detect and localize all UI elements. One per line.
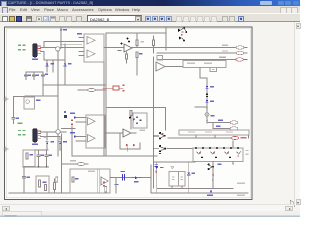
wire D21 drop vertical [188, 162, 190, 193]
BB divider [97, 169, 99, 193]
R24 label (blue) [216, 125, 221, 126]
D11 black marks [206, 94, 208, 95]
resistor R41 (vertical) [39, 180, 41, 187]
wire BB out y177 [110, 176, 151, 178]
wire pin row into U1 [44, 42, 84, 48]
lamp/varistor circle component [56, 47, 60, 51]
connector J1 refdes label [32, 58, 38, 60]
capacitor C1 label [28, 75, 31, 76]
resistor R43 marks [56, 177, 58, 182]
diode D5 (blue) [46, 63, 49, 65]
wire drop x165.5 to LB2 [165, 107, 167, 130]
wire D20 drop [156, 162, 158, 193]
capacitor C3 label [45, 73, 48, 74]
snubber box U6 [133, 113, 147, 128]
wire sec rail upper [157, 187, 233, 189]
wire feed rail y107 [106, 106, 166, 108]
R22 right stub [244, 59, 247, 61]
diode D21 (blue) [187, 172, 190, 174]
op-amp U1A triangle [87, 37, 95, 45]
wire D6 vertical [64, 44, 66, 85]
LED D1 (blue) [60, 30, 63, 32]
sheet inner margin line [6, 29, 250, 198]
junction on rail [136, 32, 138, 34]
wire left drop [23, 167, 25, 193]
transistor Q6 cluster [159, 132, 161, 134]
wire cap rail bottom [23, 166, 49, 168]
wire stub y128.5 [62, 128, 76, 130]
pwm ctrl box U4 [157, 56, 163, 61]
lamp/varistor circle component lower [56, 130, 60, 134]
D26 label [63, 141, 67, 143]
wire U7 feed from R25 [232, 141, 234, 164]
D23 label [207, 195, 213, 196]
R23 label (blue) [218, 120, 223, 121]
resistor R13 (oval) [88, 88, 96, 91]
R40 label [29, 154, 32, 155]
resistor R23 (oval) [230, 121, 238, 124]
R11 label [141, 41, 144, 42]
wire diode string vertical [206, 78, 208, 123]
wire vertical x58.5 [57, 51, 59, 156]
transistor Q4 cluster dots [179, 36, 181, 39]
zener DZ1 (dark) [64, 111, 66, 113]
wire long vertical x104 [103, 62, 105, 156]
op-amp U3B triangle [88, 135, 96, 143]
wire rail y59.5 [157, 59, 236, 61]
comparator A1 triangle [124, 44, 132, 52]
capacitor C14 (blue) at x156 [155, 165, 158, 167]
wire long vertical x106 [105, 33, 107, 156]
resistor R22 (oval) [236, 58, 244, 61]
U7 top edge transistor dots [195, 147, 197, 149]
wire R12 lower stub [136, 58, 138, 76]
filter box FL1 [23, 150, 35, 167]
resistor R10 (vertical) [126, 54, 128, 59]
op-amp IC U1 box [84, 34, 104, 62]
wire vertical through D1 [60, 28, 62, 49]
T1 winding marks left [172, 176, 174, 177]
U1 pin name text row [60, 44, 82, 45]
BB top label [88, 171, 95, 172]
Q3 red mark [182, 31, 184, 32]
diode D23 on rail (blue) [210, 190, 213, 192]
wire second feed [213, 123, 230, 129]
relay K1 coil circle [26, 100, 30, 104]
capacitor C12 [23, 177, 26, 178]
D28 label [134, 181, 139, 182]
C12 label [26, 176, 29, 177]
wire R14 stubs [153, 36, 155, 53]
junction node C [206, 120, 208, 122]
R25 value text (red) [241, 137, 247, 138]
connector J1 pins [38, 46, 41, 53]
wire U1 out to Q1 stage [104, 47, 124, 49]
D10 label [210, 86, 214, 88]
D20 label [160, 167, 164, 168]
A1 minus input mark [118, 50, 121, 52]
resistor R40 (vertical) [26, 153, 28, 159]
wire vertical x59.5 [61, 134, 63, 193]
diode D22 (red) [212, 174, 215, 176]
diode D5 label [50, 63, 54, 64]
wire U5 out into LB1 [165, 66, 183, 68]
wire capacitor rail top [26, 71, 43, 73]
op-amp U1B triangle [87, 50, 95, 58]
capacitor C13 (blue) [123, 175, 125, 181]
wire long rail y85 [43, 84, 106, 86]
wire lower pin elbow [41, 52, 65, 61]
resistor R46 inside BB [105, 187, 107, 193]
junction node B [206, 107, 208, 109]
D12 label [210, 100, 214, 102]
D25 label [50, 141, 54, 143]
wire J2 branch to D25 [46, 132, 48, 140]
resistor R20 (oval) [236, 46, 244, 49]
Q4 red mark [181, 34, 183, 35]
wire J2 upper pin [41, 131, 66, 133]
diode D20 (blue) [155, 167, 158, 169]
net label DC_P (green) [18, 130, 21, 131]
wire sec rail lower [151, 192, 248, 194]
resistor R11 (vertical) [136, 40, 138, 46]
wire J2 to D26 [41, 137, 60, 140]
border junction tick lower [4, 147, 8, 151]
capacitor C2 [33, 72, 36, 79]
R21 value text [222, 50, 228, 51]
T1 winding marks right [180, 176, 182, 177]
T1 bottom stubs [172, 186, 182, 189]
diode D6 label [68, 63, 72, 64]
diode D28 (blue) with red leads [135, 176, 138, 179]
diode D27 (red) inside BB [103, 182, 105, 183]
resistor R14 (vertical) [153, 40, 155, 46]
driver array box U7 [193, 148, 243, 162]
diode D26 (blue) [59, 142, 62, 145]
transistor Q14 cluster [208, 163, 210, 165]
ground rail bottom [9, 192, 110, 194]
crystal Y1 (red) [113, 86, 119, 90]
transistor dot Q1b [127, 38, 129, 40]
C11 label [48, 155, 51, 156]
wire U3 out to A2 [105, 132, 123, 134]
op-amp U3A triangle [88, 118, 96, 126]
title block text lower [237, 195, 245, 196]
wire down from A2 [119, 133, 121, 149]
wire sec top rail y162 [154, 161, 196, 163]
wire A2 out [131, 132, 136, 134]
U7 lower dots [201, 157, 203, 159]
wire R10 stub [126, 52, 128, 63]
resistor R30 (vertical) [130, 111, 132, 116]
capacitor C11 [45, 150, 48, 167]
schematic page sheet [5, 27, 253, 200]
transistor Q2 dot [128, 41, 130, 43]
border junction tick upper [4, 97, 8, 101]
wire mid rail y53 [157, 52, 236, 54]
capacitor C2 label [36, 75, 39, 76]
wire R13 leads [78, 89, 106, 91]
A2 output text [140, 130, 146, 131]
R31 right stub [85, 163, 88, 165]
wire vertical x53 [52, 60, 54, 72]
LB2 bottom ticks [196, 135, 215, 138]
relay/opto K1 box [24, 97, 35, 109]
capacitor C4 [12, 118, 15, 124]
transformer T1 box [169, 172, 185, 187]
side marks right of U7 [246, 150, 249, 151]
mouse cursor [290, 200, 296, 207]
wire D5 stubs [46, 60, 48, 72]
U7 bottom stub to Q14 [212, 162, 214, 165]
junction node D [212, 180, 214, 182]
connector J2 refdes label [32, 143, 38, 145]
resistor R42 (vertical) [54, 183, 56, 190]
C14 red stub [156, 170, 158, 173]
wire L elbow to relay box [25, 85, 58, 96]
Q6 red mark [162, 133, 164, 134]
ground symbol above T1 [171, 167, 174, 169]
op-amp U5 triangle [156, 62, 165, 71]
op-amp IC U3 box [86, 115, 105, 148]
U3 pin labels [70, 113, 75, 114]
R41 label [42, 182, 46, 183]
LB2 inner text marks [188, 131, 195, 132]
R31 value text [70, 160, 76, 161]
U6 inner marks [136, 117, 138, 118]
C10 label [40, 155, 43, 156]
wire top rail y33 [106, 32, 166, 34]
LED D1 label [63, 29, 67, 31]
diode D6 (blue) [64, 63, 67, 65]
wire long rail y156 [72, 155, 157, 157]
transistor Q3 cluster top dots [178, 29, 180, 32]
diode D12 (blue) [206, 100, 209, 102]
net label AC_N (green) [18, 49, 21, 50]
Q14 label (blue) [218, 163, 222, 164]
wire Q1 out [132, 47, 236, 49]
transistor Q1 emitter dot [121, 43, 123, 45]
resistor R25 (red oval) [231, 137, 238, 140]
wire driver row rail feed [167, 147, 193, 149]
red net segment below A2 [126, 147, 128, 151]
U1 refdes label [77, 33, 82, 35]
connector J2 pins [38, 131, 41, 138]
U7 inner transistor strokes [197, 152, 201, 155]
transistor Q5 dots [129, 117, 131, 119]
R21 right stub [244, 52, 247, 54]
op-amp U8 triangle [101, 177, 108, 185]
output box BB [70, 169, 110, 193]
R20 right stub [244, 47, 247, 49]
junction nodes on rail [38, 166, 40, 168]
capacitor C1 [25, 72, 28, 79]
junction node E [232, 163, 234, 165]
diode D17 (blue) small [159, 153, 161, 154]
wire elbow into string [195, 106, 207, 108]
regulator box VR1 [36, 176, 49, 193]
diode D15 (red) [126, 144, 128, 147]
R42 stubs [54, 179, 56, 193]
wire C3 drop to node [42, 79, 44, 85]
D21 label [192, 172, 196, 173]
U3 pin stubs [76, 118, 86, 142]
transistor Q7 cluster [159, 145, 161, 147]
BB out label (blue) [115, 184, 119, 185]
wire R30 stub [130, 116, 132, 130]
LED D7 (red marks) [71, 120, 73, 121]
wire Q14 to rail [212, 180, 214, 188]
R12 label [139, 53, 143, 54]
wire lower link [120, 143, 140, 149]
wire vertical x72 [71, 126, 73, 156]
wire LB1 down elbow [200, 68, 207, 79]
solder mark [44, 136, 46, 138]
IC LB2 long box [179, 130, 249, 135]
IC LB1 long box [183, 61, 226, 68]
Q14 collector wire [212, 167, 214, 186]
wire net AC to U1 [41, 46, 84, 48]
U1 pin stubs [79, 38, 84, 56]
diode D10 (blue) [206, 86, 209, 88]
wire vertical x116 [115, 177, 117, 192]
T1 divider [178, 172, 180, 187]
R22 value text [219, 57, 226, 58]
wire D25 lower stub [46, 144, 48, 150]
Q3/Q4 interconnect strokes [181, 27, 187, 40]
relay K1 label [36, 100, 41, 102]
lamp DS1 circle [205, 113, 209, 117]
capacitor C10 [37, 150, 40, 167]
C13 label [121, 171, 126, 172]
resistor R45 (vertical) [45, 185, 47, 191]
resistor R21 (oval) [236, 51, 244, 54]
resistor R12 (vertical) [136, 52, 138, 58]
connector J2 [33, 129, 37, 143]
wire y138 to R25 [168, 137, 231, 139]
R20 value text [222, 45, 228, 46]
wire vertical x151 [150, 165, 152, 193]
net label DC_N (green) [18, 134, 21, 135]
wire vertical x152 [153, 57, 155, 188]
DS1 label [211, 115, 215, 117]
R44 label [75, 178, 78, 179]
wire vertical x166 top stub [165, 28, 167, 51]
wire to left cap [13, 97, 24, 118]
LB1 inner text marks [187, 63, 195, 64]
wire cap rail top [35, 149, 48, 151]
U7 red marks [199, 153, 201, 154]
diode D25 (blue) [46, 142, 49, 145]
LB2 right stub [248, 135, 250, 138]
crystal Y1 leads [103, 87, 123, 89]
capacitor C3 [42, 72, 45, 79]
U3 pin node dots (blue) [74, 117, 76, 119]
wire rail y164 to R31 [62, 163, 78, 165]
connector J1 [33, 44, 37, 58]
capacitor C4 label [16, 117, 19, 118]
crystal Y1 red marks [123, 85, 125, 86]
diode D16 (red) [133, 144, 135, 147]
junction node A [42, 84, 44, 86]
wire R11 stubs [136, 33, 138, 48]
net label GND (green) [18, 123, 23, 124]
resistor R44 inside BB [72, 177, 74, 182]
wire D26 to vertical [60, 144, 62, 150]
resistor R24 (oval) [230, 127, 238, 130]
title block text upper [237, 183, 245, 184]
net label AC_L (green) [18, 45, 21, 46]
resistor R31 (oval) [77, 162, 84, 165]
sub box under LB1 [210, 68, 217, 72]
wire mid-right resistor feed [207, 122, 230, 124]
op-amp A2 triangle [123, 129, 131, 137]
